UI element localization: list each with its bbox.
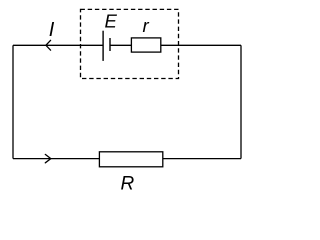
wire bottom-right segment	[163, 158, 241, 160]
svg-text:E: E	[105, 10, 118, 31]
wire top-left segment	[13, 44, 103, 46]
wire left vertical	[12, 45, 14, 158]
wire battery to resistor r	[110, 44, 131, 46]
wire resistor r to top-right corner	[161, 44, 241, 46]
wire bottom-left segment	[13, 158, 99, 160]
svg-text:r: r	[143, 15, 150, 36]
current arrow (pointing right, on bottom wire)	[45, 154, 51, 162]
resistor R	[99, 152, 162, 167]
battery cell E: short negative plate	[109, 38, 111, 51]
wire right vertical	[240, 45, 242, 158]
resistor r	[131, 38, 160, 52]
current arrow I (pointing left, on top wire)	[46, 40, 51, 50]
svg-text:R: R	[121, 173, 135, 194]
dashed enclosure (battery boundary box)	[81, 9, 179, 78]
svg-text:I: I	[49, 19, 55, 41]
battery cell E: long positive plate	[102, 31, 104, 61]
